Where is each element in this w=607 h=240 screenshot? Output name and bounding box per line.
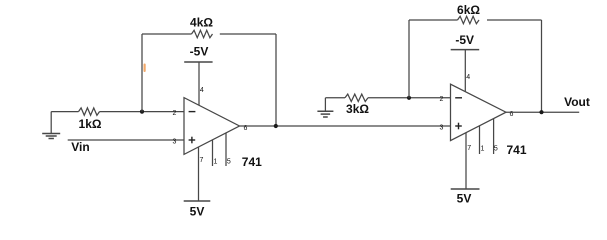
wire R3 to inverting input node C bbox=[368, 97, 451, 99]
stray orange mark bbox=[144, 64, 146, 73]
ground G1 bbox=[42, 133, 60, 135]
svg-text:Vout: Vout bbox=[564, 95, 590, 109]
op-amp U2 plus sign bbox=[455, 125, 462, 127]
op-amp U1 minus sign bbox=[189, 111, 196, 113]
supply V- bar U2 bbox=[451, 49, 480, 51]
svg-text:4: 4 bbox=[200, 87, 204, 94]
svg-text:5: 5 bbox=[494, 146, 498, 153]
wire feedback2 top left segment bbox=[409, 19, 458, 21]
wire pin 1 stub U2 bbox=[479, 126, 481, 154]
svg-text:4kΩ: 4kΩ bbox=[190, 16, 213, 30]
wire feedback2 left vertical bbox=[408, 20, 410, 98]
wire pin 4 U1 bbox=[198, 62, 200, 105]
node C junction bbox=[407, 96, 411, 100]
svg-text:1: 1 bbox=[214, 158, 218, 165]
svg-text:741: 741 bbox=[506, 143, 526, 157]
op-amp U2 minus sign bbox=[455, 97, 462, 99]
svg-text:3kΩ: 3kΩ bbox=[346, 102, 369, 116]
wire feedback left vertical bbox=[141, 34, 143, 112]
op-amp U2 triangle bbox=[451, 84, 507, 140]
svg-text:5V: 5V bbox=[190, 205, 205, 219]
svg-text:5: 5 bbox=[227, 158, 231, 165]
svg-text:6kΩ: 6kΩ bbox=[457, 3, 480, 17]
wire pin 7 U2 to V+ bar bbox=[465, 133, 467, 190]
wire R1 to inverting input node A bbox=[100, 111, 185, 113]
wire feedback2 right vertical bbox=[541, 20, 543, 112]
wire U2 output to Vout bbox=[506, 111, 579, 113]
node A junction bbox=[140, 110, 144, 114]
node B junction feedback/output bbox=[274, 124, 278, 128]
svg-text:1: 1 bbox=[480, 146, 484, 153]
svg-text:7: 7 bbox=[467, 145, 471, 152]
svg-text:Vin: Vin bbox=[71, 140, 89, 154]
wire ground to R3 bbox=[325, 97, 345, 99]
svg-text:2: 2 bbox=[173, 110, 177, 117]
svg-text:-5V: -5V bbox=[455, 33, 474, 47]
resistor R1 1kΩ bbox=[79, 108, 100, 115]
wire feedback top right segment bbox=[220, 33, 276, 35]
supply V+ bar U1 bbox=[184, 200, 211, 202]
wire pin 5 stub U1 bbox=[225, 133, 227, 166]
svg-text:4: 4 bbox=[466, 74, 470, 81]
wire Vin to non-inverting input bbox=[68, 139, 184, 141]
node D junction feedback2/output bbox=[539, 110, 543, 114]
resistor R4 6kΩ bbox=[458, 16, 480, 23]
wire feedback top left segment bbox=[142, 33, 192, 35]
wire ground G1 stub bbox=[50, 112, 52, 134]
wire ground to R1 bbox=[51, 111, 78, 113]
op-amp U1 plus sign bbox=[189, 139, 196, 141]
wire pin 7 U1 to V+ bar bbox=[198, 147, 200, 201]
svg-text:3: 3 bbox=[173, 138, 177, 145]
resistor R2 4kΩ bbox=[192, 30, 213, 37]
wire feedback2 top right segment bbox=[487, 19, 542, 21]
op-amp U1 triangle bbox=[184, 98, 240, 155]
supply V+ bar U2 bbox=[451, 188, 480, 190]
svg-text:1kΩ: 1kΩ bbox=[79, 117, 102, 131]
wire pin 5 stub U2 bbox=[493, 119, 495, 155]
svg-text:7: 7 bbox=[199, 157, 203, 164]
wire ground G2 stub bbox=[324, 98, 326, 111]
ground G2 bbox=[317, 110, 333, 112]
svg-text:2: 2 bbox=[440, 96, 444, 103]
svg-text:741: 741 bbox=[242, 155, 262, 169]
supply V- bar U1 bbox=[184, 61, 212, 63]
resistor R3 3kΩ bbox=[345, 94, 368, 101]
wire feedback right vertical bbox=[275, 34, 277, 126]
svg-text:3: 3 bbox=[440, 125, 444, 132]
wire pin 4 U2 bbox=[464, 50, 466, 92]
svg-text:5V: 5V bbox=[457, 192, 472, 206]
wire U1 output to U2 plus input bbox=[240, 125, 451, 127]
svg-text:-5V: -5V bbox=[190, 45, 209, 59]
wire pin 1 stub U1 bbox=[212, 140, 214, 166]
